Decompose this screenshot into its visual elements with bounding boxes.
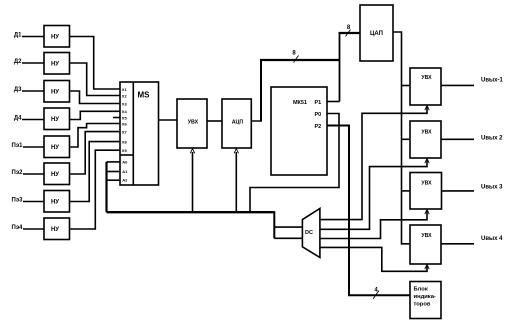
wire DC out1 to УВХ1 strobe: [320, 107, 427, 220]
svg-text:Пэ4: Пэ4: [12, 225, 24, 231]
svg-text:АЦП: АЦП: [232, 119, 244, 125]
arrowhead УВХ3 strobe: [425, 210, 429, 215]
svg-text:Блок: Блок: [414, 286, 428, 292]
svg-text:Р0: Р0: [315, 112, 322, 118]
MS address pin labels: [122, 159, 128, 182]
block УВХ4: [410, 225, 441, 264]
svg-text:Х1: Х1: [122, 87, 128, 92]
label Блок индикаторов: [414, 286, 436, 307]
block УВХ1: [410, 68, 441, 105]
svg-text:НУ: НУ: [51, 62, 59, 68]
svg-text:Х4: Х4: [122, 109, 128, 114]
svg-text:ЦАП: ЦАП: [370, 31, 383, 37]
block УВХ2: [410, 121, 441, 158]
svg-text:Пэ2: Пэ2: [12, 170, 24, 176]
svg-text:МК51: МК51: [293, 100, 307, 106]
wire Пэ1 input: [23, 146, 44, 148]
block УВХ3: [410, 173, 442, 210]
svg-text:НУ: НУ: [51, 200, 59, 206]
MS internal divider: [132, 82, 134, 185]
wire address bus vertical: [105, 162, 107, 212]
wire tap to УВХ2 input: [402, 138, 411, 140]
svg-text:НУ: НУ: [51, 172, 59, 178]
wire УВХ3 output: [442, 190, 475, 192]
svg-text:индика-: индика-: [414, 294, 436, 300]
wire УВХ4 output: [441, 243, 474, 245]
wire MS unused pin stub 2: [113, 117, 120, 119]
wire tap to УВХ3 input: [402, 190, 411, 192]
svg-text:УВХ: УВХ: [421, 233, 432, 239]
wire data bus into ЦАП: [339, 32, 361, 34]
wire bus corner to DC: [273, 211, 275, 238]
svg-text:Uвых 2: Uвых 2: [481, 136, 503, 142]
svg-text:Uвых-1: Uвых-1: [481, 78, 503, 84]
bus width slash 8 at ЦАП input: [346, 30, 351, 37]
wire ЦАП output vertical: [393, 32, 410, 244]
wire НУ4 to MS pin: [70, 111, 121, 119]
wire MS output to УВХ: [159, 119, 178, 121]
block НУ1: [44, 26, 70, 48]
wire control bus: [107, 211, 275, 213]
svg-text:УВХ: УВХ: [188, 119, 199, 125]
pin A1 wire: [107, 171, 121, 173]
wire Д2 input: [22, 62, 44, 64]
svg-text:8: 8: [292, 51, 296, 57]
svg-text:НУ: НУ: [51, 35, 59, 41]
wire P1: [327, 101, 340, 103]
wire DC out2 to УВХ2 strobe: [320, 160, 427, 229]
svg-text:Uвых 3: Uвых 3: [481, 185, 503, 191]
svg-text:Х6: Х6: [122, 122, 128, 127]
svg-text:УВХ: УВХ: [421, 129, 432, 135]
arrowhead УВХ2 strobe: [425, 159, 429, 164]
svg-text:торов: торов: [414, 302, 431, 308]
block НУ7: [44, 191, 70, 213]
svg-text:Д4: Д4: [14, 116, 22, 122]
svg-text:УВХ: УВХ: [421, 181, 432, 187]
MS data pin labels: [122, 87, 128, 153]
bus width slash 8 on horizontal bus: [294, 56, 299, 63]
wire tap to УВХ1 input: [402, 85, 411, 87]
MS pin section divider: [120, 154, 133, 156]
wire НУ1 to MS pin: [70, 37, 121, 90]
svg-text:УВХ: УВХ: [421, 75, 432, 81]
wire НУ8 to MS pin: [70, 150, 121, 229]
svg-text:Д1: Д1: [14, 33, 22, 39]
wire DC input 1: [274, 226, 302, 228]
block АЦП ADC: [222, 99, 251, 148]
wire АЦП output to data bus: [251, 120, 261, 122]
arrowhead УВХ4 strobe: [425, 265, 429, 270]
svg-text:DC: DC: [305, 230, 313, 236]
svg-text:Д3: Д3: [14, 87, 22, 93]
wire УВХ1 output: [441, 84, 474, 86]
arrowhead УВХ strobe: [190, 149, 194, 154]
svg-text:Пэ3: Пэ3: [12, 198, 24, 204]
multiplexer MS: [120, 82, 159, 185]
arrowhead АЦП strobe: [234, 149, 238, 154]
pin A2 wire: [107, 179, 121, 181]
block Блок индикации: [410, 282, 441, 319]
svg-text:А1: А1: [122, 169, 128, 174]
svg-text:Р2: Р2: [315, 124, 322, 130]
block НУ3: [44, 81, 70, 103]
svg-text:Х8: Х8: [122, 140, 128, 145]
block НУ2: [44, 53, 70, 75]
block НУ4: [44, 108, 70, 130]
wire data bus to P1 node: [260, 59, 340, 61]
svg-text:НУ: НУ: [51, 90, 59, 96]
decoder DC: [302, 209, 320, 258]
svg-text:Х7: Х7: [122, 130, 128, 135]
wire data bus vertical at P1: [339, 33, 341, 102]
svg-text:Р1: Р1: [315, 100, 322, 106]
wire P2 to indicator block: [327, 126, 410, 296]
microcontroller МК51: [271, 87, 327, 175]
wire Д1 input: [22, 36, 44, 38]
svg-text:Х2: Х2: [122, 94, 128, 99]
bus width slash 4: [373, 291, 379, 300]
wire strobe to АЦП: [235, 152, 237, 212]
wire DC out4 to УВХ4 strobe: [320, 247, 427, 271]
wire НУ7 to MS pin: [70, 142, 121, 202]
block УВХ sample-hold: [177, 99, 207, 148]
svg-text:Х5: Х5: [122, 116, 128, 121]
svg-text:Пэ1: Пэ1: [12, 143, 24, 149]
svg-text:Uвых 4: Uвых 4: [481, 236, 503, 242]
wire DC input 2: [274, 237, 302, 239]
pin A0 wire: [107, 161, 121, 163]
svg-text:НУ: НУ: [51, 117, 59, 123]
svg-text:Д2: Д2: [14, 59, 22, 65]
wire НУ5 to MS pin: [70, 124, 121, 148]
arrowhead УВХ1 strobe: [425, 106, 429, 111]
converter ЦАП DAC: [360, 5, 393, 61]
svg-text:НУ: НУ: [51, 145, 59, 151]
wire НУ3 to MS pin: [70, 91, 121, 104]
wire УВХ2 output: [441, 138, 474, 140]
wire Пэ3 input: [23, 201, 44, 203]
svg-text:Х9: Х9: [122, 148, 128, 153]
wire Пэ2 input: [23, 173, 44, 175]
wire P0: [250, 114, 339, 213]
block НУ5: [44, 136, 70, 158]
wire DC out3 to УВХ3 strobe: [320, 211, 427, 239]
wire Д4 input: [22, 119, 44, 121]
wire Пэ4 input: [23, 228, 44, 230]
wire УВХ to АЦП: [207, 120, 222, 122]
svg-text:НУ: НУ: [51, 227, 59, 233]
wire Д3 input: [22, 90, 44, 92]
block НУ6: [44, 163, 70, 185]
block НУ8: [44, 218, 70, 240]
svg-text:MS: MS: [138, 91, 151, 100]
svg-text:А0: А0: [122, 159, 128, 164]
wire НУ2 to MS pin: [70, 63, 121, 96]
wire strobe to УВХ: [192, 152, 194, 212]
wire НУ6 to MS pin: [70, 132, 121, 174]
svg-text:А2: А2: [122, 177, 128, 182]
svg-text:Х3: Х3: [122, 102, 128, 107]
